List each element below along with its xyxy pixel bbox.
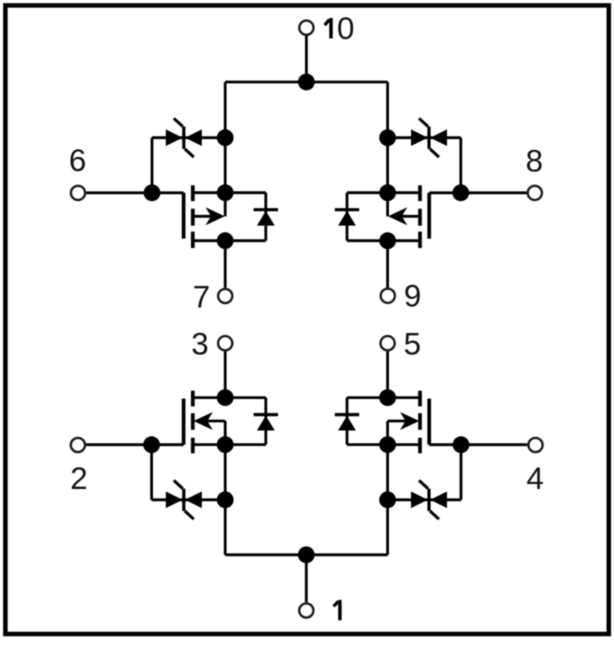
pin 1 terminal [299,603,313,617]
wire pin1 stem [305,555,308,603]
wire pin8 to gate [429,191,526,194]
pin 5 terminal [381,336,395,350]
wire source to rail lower-right [386,500,389,555]
node Z1-source junction [217,129,234,146]
pin 2 terminal [71,438,85,452]
wire pin5 to Q4 [386,351,389,397]
svg-text:0: 0 [337,11,354,46]
transistor Q3 (lower-left n-MOSFET) [182,399,186,445]
zener Z2 (gate protection, upper-right) [411,129,428,146]
wire top rail left drop [224,82,227,138]
wire source drop upper-right [386,138,389,193]
svg-text:2: 2 [70,461,87,496]
svg-text:7: 7 [193,279,210,314]
wire top rail right drop [386,82,389,138]
wire Q1 diode bottom [225,239,266,242]
zener Z4 (gate protection, lower-right) [411,492,428,509]
wire zener Z2 lead [388,136,461,139]
wire Q4 source drop [386,445,389,500]
wire Q4 diode top [347,396,388,399]
wire zener Z1 lead [152,136,225,139]
diode D4 (Q4 body diode) [346,398,349,445]
wire Q3 diode bottom [225,443,266,446]
wire pin4 to gate [429,443,527,446]
wire top rail [225,81,387,84]
wire gate riser upper-right [459,138,462,193]
wire Q2 to pin9 [386,241,389,288]
wire Q3 diode top [225,396,266,399]
pin 9 terminal [381,289,395,303]
wire Q3 source drop [224,445,227,500]
node Z3-source junction [217,491,234,508]
label pin 10 [325,11,355,46]
pin 3 terminal [218,336,232,350]
svg-text:5: 5 [404,327,421,362]
wire zener Z3 lead [152,498,226,501]
node top rail junction [298,74,315,91]
transistor Q2 (upper-right p-MOSFET) [427,193,431,239]
node Q4 source junction [379,436,396,453]
pin 6 terminal [71,186,85,200]
node Q3 drain junction [217,389,234,406]
wire pin10 stem [305,35,308,82]
node gate junction upper-right [452,184,469,201]
node bottom rail junction [298,546,315,563]
wire Q1 to pin7 [224,241,227,288]
wire pin6 to gate [86,191,183,194]
pin 4 terminal [528,438,542,452]
node Q1 drain junction [217,232,234,249]
zener Z1 (gate protection, upper-left) [166,129,183,146]
wire source drop upper-left [224,138,227,193]
node gate junction lower-right [453,436,470,453]
diode D3 (Q3 body diode) [264,398,267,445]
wire bottom rail [225,553,387,556]
wire gate riser upper-left [151,138,154,193]
node Q1 source junction [217,184,234,201]
wire Q4 diode bottom [347,443,388,446]
node Q3 source junction [217,436,234,453]
svg-text:6: 6 [69,143,86,178]
wire gate drop lower-right [460,445,463,500]
wire pin3 to Q3 [224,351,227,397]
svg-text:4: 4 [526,461,543,496]
transistor Q1 (upper-left p-MOSFET) [182,193,186,239]
pin 8 terminal [528,186,542,200]
svg-text:8: 8 [526,144,543,179]
wire source to rail lower-left [224,500,227,555]
wire gate drop lower-left [150,445,153,500]
node Z4-source junction [379,491,396,508]
node gate junction upper-left [144,184,161,201]
wire Q1 diode top [225,191,266,194]
node Z2-source junction [379,129,396,146]
wire Q2 diode top [347,191,388,194]
node Q2 source junction [379,184,396,201]
pin 10 terminal [299,21,313,35]
wire Q2 diode bottom [347,239,388,242]
transistor Q4 (lower-right n-MOSFET) [427,399,431,445]
wire pin2 to gate [86,443,184,446]
node gate junction lower-left [143,436,160,453]
node Q4 drain junction [379,389,396,406]
svg-text:9: 9 [404,279,421,314]
label pin 1 [334,600,340,620]
wire zener Z4 lead [388,498,461,501]
diode D2 (Q2 body diode) [346,193,349,241]
svg-text:3: 3 [191,327,208,362]
zener Z3 (gate protection, lower-left) [166,492,183,509]
diode D1 (Q1 body diode) [264,193,267,241]
pin 7 terminal [218,289,232,303]
node Q2 drain junction [379,232,396,249]
